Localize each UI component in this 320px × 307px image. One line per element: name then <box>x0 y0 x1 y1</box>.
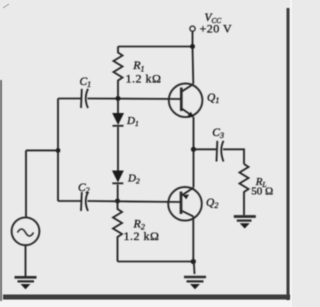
node Vcc junction <box>190 44 195 49</box>
label 1.2 kOhm (R2) <box>124 229 160 243</box>
node left tee <box>56 148 61 153</box>
label 50 Ohm <box>251 185 273 197</box>
transistor Q1 <box>169 84 203 118</box>
wire top rail <box>118 46 193 48</box>
resistor R2 <box>113 201 122 262</box>
diode D1 <box>112 99 124 126</box>
wire left rail vertical <box>57 99 59 202</box>
wire C1 to Q1 base <box>88 98 182 101</box>
AC source <box>12 217 40 245</box>
wire Q2 collector down <box>192 216 194 261</box>
wire junction to ground <box>193 262 196 275</box>
capacitor C1 <box>81 89 88 108</box>
svg-text:50 Ω: 50 Ω <box>251 185 273 197</box>
diode D2 <box>112 171 124 184</box>
label +20 V <box>200 22 233 36</box>
wire C1 left <box>58 98 81 100</box>
label D2 <box>127 173 140 186</box>
wire D1 to D2 <box>117 127 119 171</box>
transistor Q2 <box>168 187 202 221</box>
capacitor C3 <box>217 141 224 162</box>
wire Q1 emitter down <box>193 117 195 149</box>
svg-text:1.2 kΩ: 1.2 kΩ <box>124 229 160 243</box>
wire D2 to lower junction <box>117 185 119 202</box>
label D1 <box>126 115 139 128</box>
ground left <box>15 277 37 289</box>
label 1.2 kOhm (R1) <box>126 72 162 86</box>
wire output to C3 <box>194 148 217 150</box>
label C2 <box>78 182 90 195</box>
resistor R1 <box>114 47 123 99</box>
label Q2 <box>206 197 218 210</box>
wire C3 to RL <box>223 149 244 164</box>
label C1 <box>80 76 92 89</box>
svg-text:1.2 kΩ: 1.2 kΩ <box>126 72 162 86</box>
capacitor C2 <box>81 192 88 211</box>
node output junction <box>191 147 196 152</box>
wire C2 to Q2 base <box>88 201 182 202</box>
wire bottom horizontal <box>118 261 194 263</box>
wire output to Q2 emitter <box>193 149 195 187</box>
svg-text:+20 V: +20 V <box>200 22 233 36</box>
wire Vcc to rail <box>192 31 194 46</box>
Vcc terminal <box>190 26 195 31</box>
ground right <box>234 217 256 229</box>
label Q1 <box>207 92 219 105</box>
wire source bottom <box>25 245 27 276</box>
wire source top <box>25 150 27 217</box>
wire C2 left <box>58 200 81 202</box>
label Vcc <box>205 12 222 25</box>
wire rail to Q1 collector <box>192 47 195 84</box>
label RL <box>255 176 267 189</box>
node bottom junction <box>191 259 196 264</box>
node base junction lower <box>115 199 120 204</box>
ground bottom center <box>184 277 206 289</box>
label R2 <box>133 217 145 232</box>
label R1 <box>132 58 144 73</box>
label C3 <box>212 127 224 140</box>
node base junction upper <box>116 96 121 101</box>
resistor RL <box>240 164 249 215</box>
wire source to left rail <box>26 149 58 151</box>
